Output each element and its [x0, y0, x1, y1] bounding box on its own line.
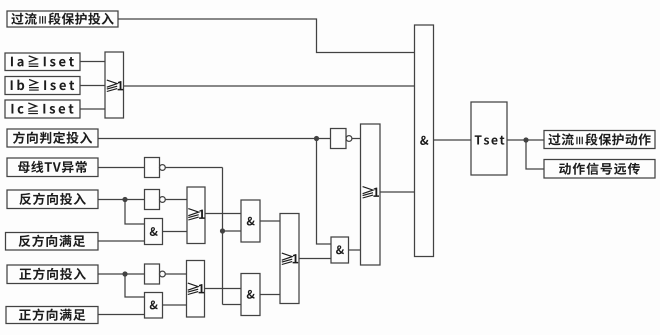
wire: OR U5 output to AND U8	[205, 213, 241, 215]
wire: AND U10 to OR U11	[163, 304, 187, 306]
wire: AND U9 to OR U14	[260, 294, 280, 296]
wire: TV-normal to AND U9	[223, 304, 242, 306]
output box: 过流III段保护动作	[544, 131, 655, 149]
wire: 过流III段保护投入 to AND U7	[118, 19, 415, 53]
wire: AND U7 output to Tset	[434, 139, 472, 141]
input box: 正方向满足	[6, 307, 98, 324]
and-gate U7 (总与门)	[415, 25, 434, 257]
wire: Tset output to 过流III段保护动作	[507, 139, 544, 141]
node: junction after Tset	[523, 137, 528, 142]
node: junction on 正方向投入 line	[122, 271, 127, 276]
not-gate U2 (母线TV异常)	[145, 158, 166, 178]
not-gate U6 (正方向投入)	[145, 264, 166, 284]
wire: 正方向投入 to NOT U6	[98, 273, 145, 275]
input box: 过流III段保护投入	[7, 11, 118, 27]
input box: 反方向满足	[6, 233, 99, 251]
wire: 母线TV异常 to NOT U2	[98, 167, 145, 169]
or-gate U15 (方向条件 OR)	[361, 124, 381, 265]
wire: OR U1 output to AND U7	[124, 85, 415, 87]
output box: 动作信号远传	[544, 160, 655, 179]
wire: NOT U2 output right	[165, 167, 222, 169]
wire: TV-normal to AND U8	[223, 230, 242, 232]
and-gate U8 (反方向&TV)	[241, 200, 260, 242]
wire: OR U15 output to AND U7	[380, 191, 415, 193]
node: junction on 方向判定投入 line	[314, 136, 319, 141]
wire: 正方向投入 branch to AND U10	[125, 274, 145, 297]
timer Tset U16	[471, 102, 507, 175]
or-gate U5 (反方向 OR)	[187, 187, 205, 244]
wire: 反方向满足 to AND U4	[98, 240, 145, 242]
wire: 方向判定投入 to NOT U13	[98, 138, 331, 140]
wire: AND U8 to OR U14	[260, 220, 280, 222]
input box: 母线TV异常	[7, 158, 98, 177]
node: junction on TV-normal bus	[220, 228, 225, 233]
input box: 正方向投入	[7, 265, 98, 284]
wire: Ic to OR U1	[80, 108, 105, 110]
wire: Ib to OR U1	[80, 85, 105, 87]
wire: NOT U6 to OR U11	[165, 273, 186, 275]
input box: Ia>=Iset	[5, 53, 80, 71]
input box: 方向判定投入	[7, 129, 98, 147]
wire: TV-normal vertical bus	[222, 168, 224, 305]
input box: Ic>=Iset	[5, 100, 80, 118]
not-gate U3 (反方向投入)	[145, 190, 166, 210]
wire: NOT U13 to OR U15	[352, 138, 361, 140]
and-gate U4 (反方向)	[145, 219, 163, 245]
wire: NOT U3 to OR U5	[165, 199, 187, 201]
wire: 反方向投入 to NOT U3	[98, 199, 145, 201]
wire: OR U14 output to AND U12	[299, 258, 331, 260]
wire: OR U11 output to AND U9	[205, 288, 242, 290]
input box: Ib>=Iset	[5, 77, 80, 95]
node: junction on 反方向投入 line	[122, 197, 127, 202]
wire: 反方向投入 branch to AND U4	[125, 200, 145, 225]
and-gate U10 (正方向)	[145, 293, 163, 319]
wire: branch down to 动作信号远传	[526, 140, 544, 169]
or-gate U1 (Ia/Ib/Ic)	[105, 52, 124, 118]
wire: AND U4 to OR U5	[163, 231, 188, 233]
input box: 反方向投入	[7, 190, 98, 209]
and-gate U12 (方向判定&方向)	[331, 237, 349, 263]
wire: 正方向满足 to AND U10	[98, 314, 145, 316]
or-gate U11 (正方向 OR)	[187, 261, 205, 318]
and-gate U9 (正方向&TV)	[241, 274, 260, 316]
wire: Ia to OR U1	[80, 61, 105, 63]
or-gate U14 (方向合成)	[280, 214, 299, 304]
wire: 方向判定投入 branch down to AND U12	[317, 139, 332, 245]
wire: AND U12 to OR U15	[349, 249, 361, 251]
not-gate U13 (方向判定投入)	[331, 129, 352, 149]
